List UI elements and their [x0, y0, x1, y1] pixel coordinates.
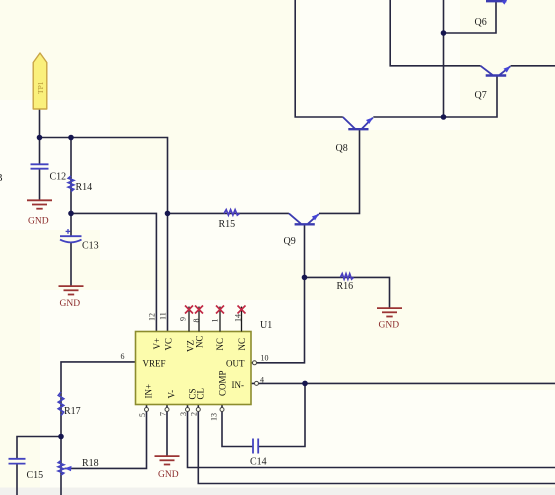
junction node dots: [37, 30, 447, 439]
svg-text:NC: NC: [215, 338, 225, 351]
svg-text:GND: GND: [28, 217, 49, 227]
svg-text:10: 10: [261, 354, 269, 363]
capacitor C13 (polarized): [60, 229, 82, 242]
pin 10 circle: [253, 361, 257, 365]
svg-text:1: 1: [211, 319, 220, 323]
transistor Q6 (clipped at top edge): [486, 0, 506, 1]
no-ERC marker pin 14: [238, 306, 246, 314]
no-ERC marker pin 8: [195, 306, 203, 314]
wire: C13 to ground: [70, 243, 72, 286]
wire: VREF pin to R17: [61, 362, 136, 437]
wire: test point down through C12 node: [39, 109, 41, 164]
pin 9 VZ stub: [188, 307, 190, 332]
svg-text:Q8: Q8: [336, 143, 348, 154]
wire: vertical mirror bus x=443.5: [443, 0, 445, 117]
wire: C14 to IN- node: [258, 383, 305, 446]
svg-text:COMP: COMP: [218, 370, 228, 396]
ground under V- pin: [155, 456, 180, 464]
svg-text:GND: GND: [158, 470, 179, 480]
svg-text:C15: C15: [27, 470, 44, 481]
resistor R16: [340, 274, 353, 279]
svg-text:IN-: IN-: [232, 380, 245, 390]
resistor R15: [224, 210, 240, 215]
node: R14 bottom: [68, 211, 74, 217]
transistor Q7: [481, 66, 511, 76]
svg-text:VREF: VREF: [143, 359, 166, 369]
svg-text:Q6: Q6: [475, 17, 487, 28]
ground under R16: [377, 308, 402, 316]
pin attachment circles: [145, 361, 259, 412]
ground under C12: [27, 200, 52, 208]
wire: vertical from top to Q8 collector: [295, 0, 343, 117]
potentiometer R18: [58, 461, 63, 476]
svg-text:2: 2: [190, 412, 199, 416]
pin 3 circle: [186, 408, 190, 412]
wire: C15 bottom lead: [16, 464, 18, 495]
svg-text:Q9: Q9: [284, 236, 296, 247]
pin 13 circle: [220, 408, 224, 412]
node: Q6 base bus: [441, 30, 447, 36]
pin 1 NC stub: [219, 307, 221, 332]
svg-text:GND: GND: [379, 320, 400, 330]
svg-text:IN+: IN+: [144, 384, 154, 399]
no-ERC marker pin 1: [216, 306, 224, 314]
svg-text:V-: V-: [167, 390, 177, 399]
pin 4 circle: [255, 381, 259, 385]
resistor R17: [58, 392, 63, 416]
wire: OUT pin 10 up to Q9 base: [251, 225, 305, 363]
wire: top horizontal to VC vertical: [40, 138, 168, 332]
wire: node to V+ pin: [71, 213, 156, 331]
node: Q9 base / R16: [302, 275, 308, 281]
wire: Q7 emitter to right edge: [511, 65, 555, 67]
svg-text:C13: C13: [82, 241, 99, 252]
wire: CL pin to right edge: [198, 405, 555, 484]
svg-text:12: 12: [148, 313, 157, 321]
svg-text:NC: NC: [237, 338, 247, 351]
wire: IN- pin 4 to right edge: [251, 382, 555, 384]
wire: node to C15: [17, 437, 61, 459]
svg-text:Q7: Q7: [475, 90, 487, 101]
svg-text:8: 8: [192, 319, 201, 323]
svg-text:R17: R17: [64, 406, 81, 417]
svg-text:R14: R14: [76, 182, 93, 193]
pin 14 NC stub: [241, 307, 243, 332]
svg-text:R18: R18: [82, 458, 99, 469]
svg-text:V+: V+: [152, 338, 162, 350]
svg-text:C14: C14: [250, 456, 267, 467]
node: Q8 emitter bus: [441, 114, 447, 120]
pin 8 NC stub: [198, 307, 200, 332]
capacitor C15: [9, 459, 26, 464]
no-ERC marker pin 9: [185, 306, 193, 314]
node: VC branch: [165, 211, 171, 217]
node: R17/R18/C15: [58, 434, 64, 440]
svg-text:OUT: OUT: [226, 359, 245, 369]
wire: R18 wiper to IN+ pin: [65, 405, 147, 469]
svg-text:U1: U1: [260, 320, 272, 331]
svg-text:14: 14: [234, 314, 243, 322]
svg-text:6: 6: [121, 352, 125, 361]
wire: C12 to ground: [39, 169, 41, 200]
test point TP1: [33, 53, 47, 109]
wire: Q6 base to bus: [444, 1, 497, 33]
wire: V- pin to ground: [166, 405, 168, 456]
ground under C13: [59, 286, 84, 294]
transistor Q8: [343, 117, 373, 129]
svg-text:NC: NC: [195, 335, 205, 348]
svg-text:GND: GND: [60, 299, 81, 309]
svg-text:C12: C12: [50, 172, 67, 183]
svg-text:7: 7: [159, 412, 168, 416]
wire: vertical from top to Q7 collector: [390, 0, 480, 66]
svg-text:VC: VC: [164, 338, 174, 351]
svg-text:9: 9: [179, 317, 188, 321]
node: TP/C12: [37, 135, 43, 141]
svg-text:TP1: TP1: [36, 81, 45, 94]
bottom window strip: [0, 488, 555, 495]
wire: Q8 emitter to Q7 base: [373, 76, 497, 118]
svg-text:R15: R15: [219, 219, 236, 230]
wire: R14 branch down to C13: [70, 138, 72, 237]
transistor Q9: [289, 213, 319, 224]
wire: node down through R18 to bottom: [60, 437, 62, 495]
svg-text:11: 11: [159, 312, 168, 320]
svg-text:R16: R16: [337, 281, 354, 292]
R18 wiper arrow: [65, 466, 72, 471]
svg-text:3: 3: [179, 412, 188, 416]
capacitor C14: [253, 439, 258, 454]
node: R14 top: [68, 135, 74, 141]
svg-text:13: 13: [210, 413, 219, 421]
wire: COMP pin to C14: [222, 405, 253, 447]
wire: R16 branch to ground: [305, 277, 390, 307]
svg-text:5: 5: [138, 413, 147, 417]
wire: R15 net from VC junction to Q9 collector: [168, 212, 289, 214]
wire: Q8 base down to Q9 emitter: [319, 129, 360, 213]
wire: CS pin to right edge: [188, 405, 555, 468]
svg-text:4: 4: [260, 376, 264, 385]
pin 7 circle: [165, 408, 169, 412]
capacitor C12: [31, 164, 49, 168]
resistor R14: [68, 176, 73, 192]
IC U1 body: [136, 332, 252, 405]
pin 5 circle: [145, 408, 149, 412]
svg-text:CL: CL: [196, 388, 206, 400]
pin 2 circle: [196, 408, 200, 412]
node: IN- / C14: [302, 381, 308, 387]
